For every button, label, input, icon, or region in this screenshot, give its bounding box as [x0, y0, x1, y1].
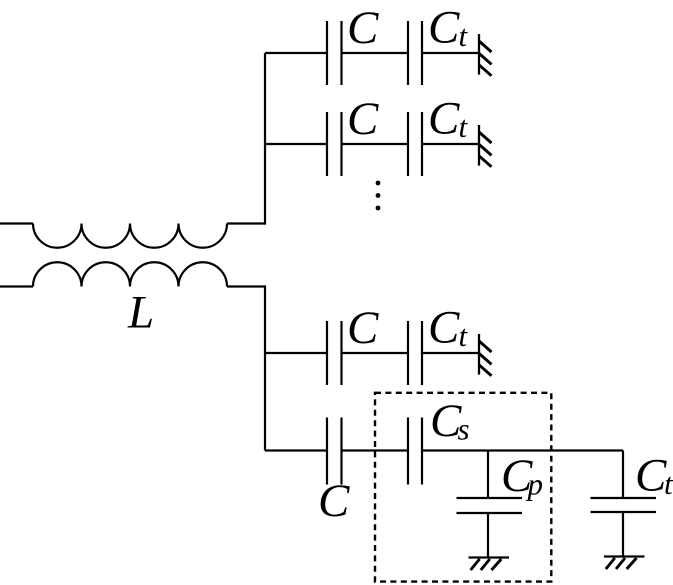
wire bottom-left lead: [0, 285, 33, 287]
wire branch2 Ct to ground: [422, 143, 479, 145]
wire branch1 Ct to ground: [422, 52, 479, 54]
svg-text:C: C: [318, 475, 350, 527]
wire branch1 C to Ct: [342, 52, 409, 54]
capacitor C branch2: [327, 112, 342, 176]
ground branch3: [479, 334, 492, 376]
capacitor C branch4: [327, 418, 342, 485]
label Ct bottom: [635, 450, 673, 502]
capacitor Ct bottom: [591, 498, 657, 512]
capacitor Ct branch1: [408, 21, 422, 85]
svg-text:C: C: [428, 302, 460, 354]
wire bus upper vertical: [264, 53, 266, 225]
svg-text:t: t: [459, 109, 469, 144]
capacitor Ct branch3: [408, 321, 422, 385]
capacitor Cp: [457, 498, 523, 513]
label Ct branch3: [428, 302, 469, 354]
svg-text:C: C: [428, 93, 460, 145]
wire branch1 bus to C: [265, 52, 327, 54]
svg-text:C: C: [635, 450, 667, 502]
wire Ct bottom to ground: [622, 512, 624, 557]
wire bottom inductor to bus: [227, 285, 265, 287]
inductor L top winding: [33, 224, 227, 248]
svg-text:C: C: [347, 302, 379, 354]
svg-text:t: t: [664, 466, 673, 501]
ellipsis dots: [376, 181, 381, 211]
svg-text:C: C: [347, 93, 379, 145]
label Ct branch2: [428, 93, 469, 145]
capacitor C branch3: [327, 321, 342, 385]
capacitor Cs: [408, 418, 422, 485]
wire Cp tap: [487, 451, 489, 499]
wire top-left lead: [0, 222, 33, 224]
wire branch3 C to Ct: [342, 352, 409, 354]
inductor L bottom winding: [33, 262, 227, 286]
wire branch2 bus to C: [265, 143, 327, 145]
wire branch4 C to Cs: [342, 449, 409, 451]
svg-text:t: t: [459, 18, 469, 53]
wire branch3 bus to C: [265, 352, 327, 354]
wire top inductor to bus: [227, 222, 265, 224]
svg-text:L: L: [127, 287, 154, 339]
dashed box unit cell: [375, 393, 551, 582]
wire branch4 corner down to Ct: [622, 451, 624, 499]
wire branch2 C to Ct: [342, 143, 409, 145]
ground branch1: [479, 34, 492, 76]
ground Cp: [469, 558, 510, 571]
svg-text:p: p: [526, 467, 544, 502]
wire Cp to ground: [487, 513, 489, 558]
wire branch4 Cs to right corner: [422, 449, 623, 451]
svg-text:C: C: [428, 2, 460, 54]
label Ct branch1: [428, 2, 469, 54]
wire bus lower vertical: [264, 285, 266, 450]
svg-text:C: C: [347, 2, 379, 54]
capacitor C branch1: [327, 21, 342, 85]
wire branch4 bus to C: [265, 449, 327, 451]
svg-text:s: s: [458, 412, 470, 447]
ground Ct bottom: [604, 557, 645, 570]
label Cp: [501, 450, 543, 502]
wire branch3 Ct to ground: [422, 352, 479, 354]
label Cs: [430, 395, 470, 447]
ground branch2: [479, 125, 492, 167]
svg-text:t: t: [459, 318, 469, 353]
capacitor Ct branch2: [408, 112, 422, 176]
